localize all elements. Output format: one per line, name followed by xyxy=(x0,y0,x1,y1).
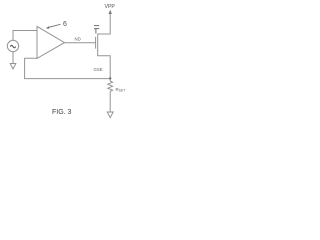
svg-text:GSE: GSE xyxy=(94,67,103,72)
svg-text:RSET: RSET xyxy=(116,87,126,93)
svg-text:ND: ND xyxy=(75,36,81,41)
svg-text:FIG. 3: FIG. 3 xyxy=(52,109,72,116)
svg-text:6: 6 xyxy=(63,21,67,28)
svg-text:VPP: VPP xyxy=(105,4,116,10)
